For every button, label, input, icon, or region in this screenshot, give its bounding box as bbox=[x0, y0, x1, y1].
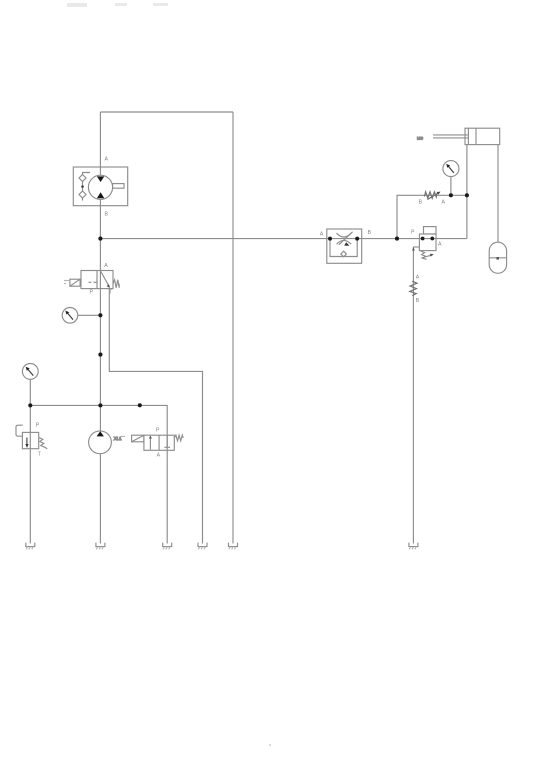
node relief branch bbox=[28, 403, 32, 407]
motor U1 shaft bbox=[113, 184, 124, 189]
relief valve RV1 pilot line bbox=[16, 425, 23, 436]
valve V2 spring bbox=[174, 435, 183, 441]
pump P1 circle bbox=[89, 431, 112, 454]
relief valve RV1 internal arrow bbox=[26, 438, 28, 445]
wire W9 gauge G3 drop bbox=[450, 177, 452, 196]
valve V1 3/2 directional body bbox=[81, 271, 113, 289]
gauge G2 needle bbox=[27, 368, 33, 375]
motor U1 mid mark bbox=[81, 186, 83, 188]
node cylinder branch bbox=[465, 193, 469, 197]
cylinder CYL1 rod bbox=[433, 134, 468, 136]
reducing valve PRV1 spring bbox=[421, 251, 427, 259]
junction node dots bbox=[28, 193, 469, 407]
svg-text:A: A bbox=[438, 242, 442, 248]
port labels bbox=[36, 157, 446, 459]
valve V1 spring bbox=[113, 280, 119, 288]
valve V1 blocked port dashes bbox=[89, 281, 92, 283]
node PRV1 outlet bbox=[430, 237, 434, 241]
wire W4 gauge G1 connector bbox=[78, 314, 101, 316]
wire W8 orifice branch bbox=[397, 195, 467, 238]
valve V1 cell divider bbox=[96, 271, 98, 289]
spring SP1 arrow bbox=[428, 193, 440, 200]
valve V1 actuator tick bbox=[64, 280, 70, 282]
valve V1 solenoid box bbox=[70, 279, 80, 286]
valve V2 solenoid diagonal bbox=[132, 435, 144, 442]
gauge G1 needle bbox=[67, 312, 73, 320]
gauge G3 bbox=[443, 161, 459, 177]
wire W13 reducing valve drain line bbox=[412, 247, 414, 544]
accumulator AC1 center mark bbox=[496, 257, 499, 260]
pump P1 outlet triangle bbox=[97, 431, 104, 436]
wire W1 main vertical line x=100.4 from top corner to tank bbox=[99, 112, 101, 544]
node PRV1 inlet bbox=[421, 237, 425, 241]
node FC1 bypass left bbox=[328, 237, 332, 241]
wire W10 cylinder right port to accumulator bbox=[497, 145, 499, 243]
valve V1 solenoid diagonal bbox=[70, 279, 80, 286]
gauge G2 bbox=[22, 364, 38, 380]
node marker mid line bbox=[98, 353, 102, 357]
valve V2 solenoid box bbox=[132, 435, 144, 442]
tank T6 bbox=[409, 543, 418, 550]
cylinder CYL1 piston bbox=[467, 128, 469, 144]
svg-text:T: T bbox=[109, 290, 113, 296]
svg-text:P: P bbox=[156, 427, 160, 433]
spring SP2 vertical bbox=[410, 281, 417, 295]
tank T2 bbox=[96, 543, 105, 550]
wire W11 relief branch vertical bbox=[29, 379, 31, 543]
valve V2 2/2 body bbox=[144, 435, 174, 450]
spring SP1 horizontal bbox=[424, 192, 436, 199]
motor U1 top port triangle bbox=[97, 176, 104, 182]
node gauge G1 tap bbox=[98, 313, 102, 317]
svg-text:A: A bbox=[105, 157, 109, 163]
flow control FC1 bypass line bbox=[330, 239, 357, 257]
svg-text:XL1: XL1 bbox=[114, 436, 122, 441]
cylinder CYL1 body bbox=[465, 128, 500, 144]
valve V2 right cell blocked line bbox=[166, 435, 168, 447]
wire W12 bottom horizontal to valve V2 bbox=[30, 405, 167, 543]
svg-text:A: A bbox=[320, 231, 324, 237]
reducing valve PRV1 adjust arrow bbox=[422, 255, 433, 258]
svg-text:B: B bbox=[368, 230, 372, 236]
tank T4 bbox=[198, 543, 207, 550]
flow control FC1 adjust arrow bbox=[339, 232, 353, 245]
svg-text:T: T bbox=[38, 451, 42, 457]
relief valve RV1 spring bbox=[39, 438, 48, 449]
motor U1 check valve bottom diamond bbox=[79, 191, 86, 198]
reducing valve PRV1 pilot cap bbox=[424, 227, 437, 234]
svg-text:B: B bbox=[416, 298, 420, 304]
reducing valve PRV1 drain arrowhead bbox=[412, 247, 415, 250]
svg-text:B: B bbox=[419, 199, 423, 205]
wire W3 right vertical from top corner down to tank bbox=[232, 112, 234, 544]
accumulator AC1 shell bbox=[489, 242, 506, 273]
node pump outlet bbox=[98, 403, 102, 407]
wire W6 main horizontal at y=238.6 bbox=[100, 238, 467, 240]
node before valve V2 bbox=[138, 403, 142, 407]
reducing valve PRV1 body bbox=[419, 234, 436, 251]
accumulator AC1 mid line bbox=[489, 257, 506, 259]
wire W7 cylinder left port drop bbox=[466, 145, 468, 239]
faint header text smudge bbox=[67, 3, 168, 7]
svg-text:P: P bbox=[36, 422, 40, 428]
svg-text:A: A bbox=[442, 200, 446, 206]
gauge G1 bbox=[62, 308, 78, 324]
node orifice branch bbox=[395, 237, 399, 241]
tank T1 bbox=[26, 543, 35, 550]
motor U1 bottom port triangle bbox=[97, 192, 104, 198]
tank T5 bbox=[229, 543, 238, 550]
flow control FC1 body bbox=[327, 229, 362, 263]
svg-text:P: P bbox=[90, 290, 94, 296]
flow control FC1 orifice arcs bbox=[337, 233, 352, 237]
flow control FC1 check valve diamond bbox=[341, 251, 347, 257]
svg-text:MS: MS bbox=[417, 135, 423, 140]
node FC1 bypass right bbox=[355, 237, 359, 241]
node at motor B branch bbox=[98, 237, 102, 241]
motor U1 outer enclosure box bbox=[73, 167, 127, 206]
valve V1 flow diagonal A to T bbox=[101, 271, 110, 287]
svg-text:A: A bbox=[104, 263, 108, 269]
node gauge G3 tap bbox=[449, 193, 453, 197]
svg-text:A: A bbox=[157, 452, 161, 458]
svg-text:P: P bbox=[411, 229, 415, 235]
faint page number bbox=[269, 744, 271, 746]
valve V2 cell divider bbox=[158, 435, 160, 450]
svg-text:A: A bbox=[416, 275, 420, 281]
gauge G3 needle bbox=[448, 165, 454, 173]
motor U1 check valve top diamond bbox=[79, 175, 86, 182]
wire W5 valve V1 T-port line to tank bbox=[109, 289, 202, 544]
wire W2 top horizontal bbox=[100, 111, 233, 113]
motor U1 check valve piping bbox=[83, 173, 91, 201]
valve V2 actuator tick bbox=[121, 435, 125, 437]
wire W13 stub to valve body bbox=[413, 246, 419, 248]
motor U1 circle bbox=[88, 175, 112, 199]
tank T3 bbox=[163, 543, 172, 550]
valve V1 diagonal arrowhead bbox=[107, 284, 110, 288]
valve V2 left cell flow arrow bbox=[149, 436, 151, 449]
svg-text:B: B bbox=[105, 212, 109, 218]
relief valve RV1 body bbox=[22, 432, 38, 448]
